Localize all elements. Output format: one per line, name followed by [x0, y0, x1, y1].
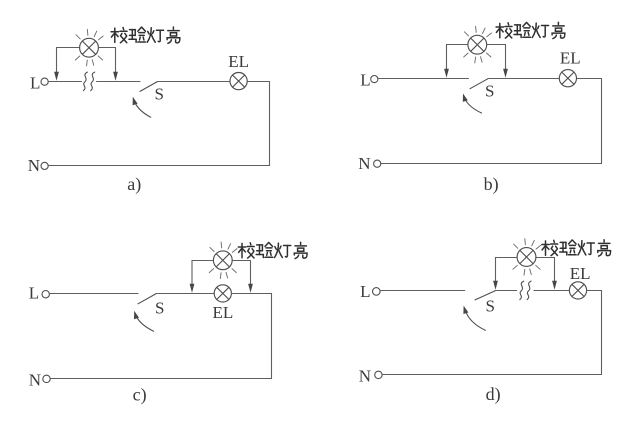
wire L to switch contact — [380, 290, 465, 292]
CIRCUIT D — [359, 239, 611, 405]
switch blade S — [138, 294, 156, 304]
terminal L — [373, 288, 381, 296]
branch top wire — [192, 260, 251, 262]
branch top wire — [496, 257, 555, 259]
down arrow left — [54, 48, 59, 81]
svg-text:S: S — [155, 298, 164, 317]
svg-text:a): a) — [127, 174, 141, 195]
svg-text:EL: EL — [570, 264, 591, 283]
switch blade S — [140, 82, 157, 92]
svg-text:N: N — [28, 156, 40, 175]
wire right vertical — [269, 82, 271, 166]
switch blade S — [470, 79, 488, 89]
down arrow right — [248, 261, 253, 293]
svg-text:S: S — [486, 297, 495, 316]
CIRCUIT C — [29, 242, 307, 405]
switch motion arrow — [463, 306, 485, 331]
wire right vertical — [601, 291, 603, 375]
wire bottom — [50, 378, 271, 380]
branch top wire — [57, 47, 116, 49]
wire break to switch contact — [97, 81, 141, 83]
lamp EL — [230, 73, 247, 90]
svg-text:N: N — [29, 370, 41, 389]
test lamp — [513, 239, 541, 276]
wire break to EL — [534, 290, 570, 292]
svg-text:L: L — [360, 71, 370, 90]
test lamp — [75, 29, 103, 66]
wire switch to EL — [157, 81, 230, 83]
wire L to break — [48, 81, 81, 83]
terminal N — [374, 160, 381, 167]
CIRCUIT A — [28, 27, 270, 195]
terminal N — [375, 371, 382, 378]
lamp EL — [559, 70, 576, 87]
label 校验灯亮 — [111, 27, 180, 43]
down arrow left — [493, 258, 498, 290]
wire EL to corner — [247, 81, 269, 83]
wire right vertical — [601, 79, 603, 164]
switch blade S — [475, 291, 495, 300]
down arrow left — [190, 261, 195, 293]
wire EL to corner — [577, 78, 602, 80]
svg-text:EL: EL — [560, 48, 581, 67]
svg-text:EL: EL — [213, 303, 234, 322]
break squiggle — [83, 72, 94, 91]
svg-text:EL: EL — [228, 52, 249, 71]
svg-text:N: N — [358, 154, 370, 173]
label 校验灯亮 — [238, 242, 307, 258]
label 校验灯亮 — [542, 240, 611, 256]
wire right vertical — [271, 294, 273, 379]
svg-text:S: S — [155, 85, 164, 104]
terminal N — [43, 375, 50, 382]
break squiggle — [520, 281, 531, 300]
CIRCUIT B — [358, 22, 601, 195]
wire switch to EL — [488, 78, 559, 80]
svg-text:b): b) — [484, 174, 499, 195]
branch top wire — [447, 44, 506, 46]
svg-text:N: N — [359, 367, 371, 386]
down arrow left — [444, 45, 449, 78]
wire switch to EL — [156, 293, 214, 295]
lamp EL — [214, 285, 231, 302]
wire switch to break — [495, 290, 516, 292]
label 校验灯亮 — [496, 22, 565, 38]
switch motion arrow — [463, 94, 482, 114]
terminal N — [41, 162, 48, 169]
down arrow right — [113, 48, 118, 81]
wire bottom — [381, 163, 602, 165]
wire EL to corner — [587, 290, 602, 292]
terminal L — [371, 76, 378, 83]
wire L to switch contact — [378, 78, 469, 80]
switch motion arrow — [133, 97, 151, 118]
test lamp — [464, 26, 492, 63]
wire bottom — [48, 165, 269, 167]
switch motion arrow — [134, 311, 154, 331]
wire bottom — [382, 374, 601, 376]
svg-text:L: L — [360, 282, 370, 301]
svg-text:L: L — [30, 74, 40, 93]
lamp EL — [569, 282, 586, 299]
svg-text:L: L — [29, 284, 39, 303]
wire EL to corner — [232, 293, 272, 295]
down arrow right — [503, 45, 508, 78]
svg-text:c): c) — [133, 384, 147, 405]
svg-text:S: S — [485, 81, 494, 100]
test lamp — [209, 242, 237, 279]
terminal L — [42, 291, 49, 298]
terminal L — [41, 78, 48, 85]
down arrow right — [552, 258, 557, 290]
svg-text:d): d) — [486, 384, 501, 405]
wire L to switch contact — [49, 293, 138, 295]
